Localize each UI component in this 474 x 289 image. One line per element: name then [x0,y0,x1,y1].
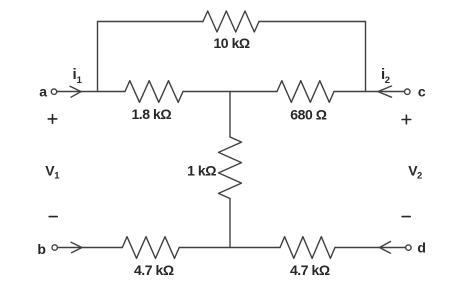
svg-text:d: d [417,239,426,255]
svg-text:1.8 kΩ: 1.8 kΩ [131,106,171,122]
resistor 4.7 kOhm (left) [122,237,179,259]
svg-text:2: 2 [385,75,390,86]
wire 1k bottom vertical [229,199,231,248]
minus sign V2 [402,216,410,218]
arrow at b head [71,242,82,252]
wire a to R 1.8k [57,91,125,93]
svg-text:b: b [37,241,46,257]
svg-text:1: 1 [54,171,60,182]
resistor 1.8 kOhm [125,81,183,103]
wire left vertical (node a branch up) [97,22,99,92]
plus sign V2 [402,115,411,124]
wire middle between resistors [183,91,277,93]
resistor 10 kOhm (top) [203,11,259,32]
wire b to R 4.7k left [58,247,123,249]
wire top-left horizontal [98,21,204,23]
wire 680 to terminal c [334,91,405,93]
wire 1k top vertical [229,92,231,138]
svg-text:2: 2 [417,171,422,182]
svg-text:4.7 kΩ: 4.7 kΩ [134,262,174,278]
svg-text:10 kΩ: 10 kΩ [213,35,249,51]
plus sign V1 [48,115,57,124]
arrow at d head [380,242,391,254]
resistor 1 kOhm (vertical) [219,137,242,199]
arrow i2 head [378,86,392,97]
terminal d [406,245,411,250]
wire bottom between resistors [179,247,280,249]
svg-text:4.7 kΩ: 4.7 kΩ [290,262,330,278]
arrow i1 head [70,86,81,97]
terminal a [51,89,56,94]
svg-text:680 Ω: 680 Ω [290,107,326,123]
minus sign V1 [49,216,57,218]
svg-text:1: 1 [77,75,83,86]
wire to terminal d [335,247,406,249]
terminal b [52,245,57,250]
resistor 4.7 kOhm (right) [280,237,335,259]
wire top-right horizontal [259,21,366,23]
resistor 680 Ohm [277,81,334,103]
wire right vertical (node c branch up) [365,22,367,92]
terminal c [405,89,410,94]
svg-text:1 kΩ: 1 kΩ [187,163,216,179]
svg-text:a: a [39,84,47,100]
svg-text:c: c [418,84,426,100]
